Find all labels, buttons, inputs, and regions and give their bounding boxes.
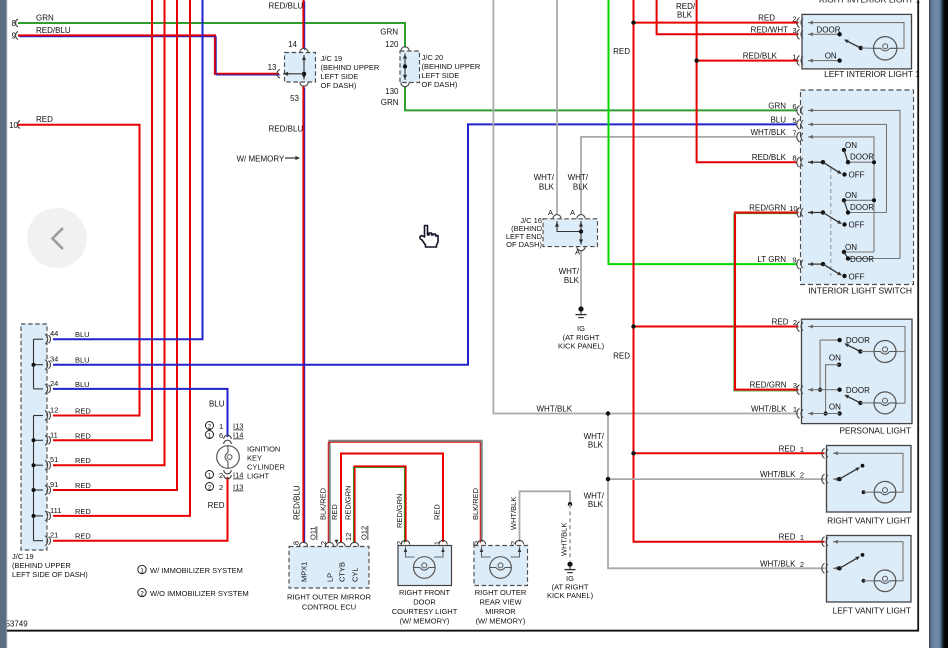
svg-text:BLU: BLU [770,115,786,124]
wire WHT/BLK vertical (top - personal light pin 1) [493,0,798,414]
svg-text:J/C 19: J/C 19 [321,54,343,63]
diagram right border [917,0,919,632]
left interior internal wiring [808,21,904,63]
svg-text:OFF: OFF [849,171,865,180]
svg-text:RED/BLU: RED/BLU [36,26,71,35]
svg-text:WHT/BLK: WHT/BLK [537,405,573,414]
mirror lamp [490,557,512,579]
label RED/GRN rotated at ECU [344,485,353,520]
pin 9 label [12,26,71,41]
svg-text:13: 13 [268,63,277,72]
svg-text:BLK: BLK [573,183,589,192]
left vanity switch [833,553,864,571]
personal pin1 line [808,412,840,416]
switch unit 3 DOOR OFF labels [849,255,875,282]
J/C16 labels WHT/BLK left pin [534,173,555,192]
svg-text:2: 2 [140,590,144,597]
svg-text:GRN: GRN [381,98,399,107]
label WHT/BLK mid horizontal [537,405,573,414]
label RED/ BLK two lines [676,2,696,20]
svg-text:RIGHT OUTER: RIGHT OUTER [475,588,527,597]
svg-text:BLU: BLU [75,380,90,389]
connector J/C19 left text [12,552,88,579]
svg-text:RED: RED [75,481,91,490]
J/C20 text label [422,53,481,89]
svg-text:1: 1 [433,541,442,545]
mirror pin 2 arc [509,540,524,545]
wire RED branch to left interior pin 2 [634,22,799,24]
personal lamp B [874,392,896,414]
switch unit 1 DOOR OFF labels [849,153,875,180]
note 1 W/ IMMOBILIZER SYSTEM [138,565,243,575]
svg-text:WHT/BLK: WHT/BLK [509,497,518,530]
svg-text:A: A [570,208,575,217]
svg-text:RED: RED [75,507,91,516]
switch pin 8 RED/BLK [752,153,803,167]
wire RED/BLK branch to pin 1 [697,60,799,62]
junction connector J/C16 box [543,219,598,247]
personal switch blade A [844,343,874,353]
switch mechanical link dashed [830,168,832,276]
personal pin3 line [808,386,870,395]
svg-text:1: 1 [792,52,796,61]
switch pin 10 RED/GRN [749,204,803,218]
svg-text:10: 10 [789,204,797,213]
svg-text:14: 14 [288,40,297,49]
control ECU text label [287,593,372,612]
svg-text:7: 7 [792,128,796,137]
ECU pin name LP [326,573,335,582]
svg-text:2: 2 [800,471,804,480]
svg-text:2: 2 [800,560,804,569]
svg-text:OF DASH): OF DASH) [506,240,542,249]
mirror pin 5 arc [471,540,486,545]
svg-text:5: 5 [471,541,480,545]
J/C19 pin 13 arc and arrow [268,63,304,78]
svg-text:WHT/BLK: WHT/BLK [751,405,787,414]
svg-text:RED/GRN: RED/GRN [749,204,786,213]
label RED near top [613,47,630,56]
wire WHT/BLK (x608 vertical to vanity lights) [608,414,825,569]
label WHT/ BLK below J/C16 [559,267,580,285]
J/C16 text label [506,216,543,249]
label RED/BLU rotated at ECU [293,485,302,520]
label BLK/RED rotated [319,487,328,520]
svg-text:GRN: GRN [768,101,786,110]
switch pin 6 GRN [768,101,803,115]
svg-text:KEY: KEY [247,454,262,463]
svg-text:RED: RED [613,47,630,56]
J/C20 top arc [401,47,409,51]
personal ON rail [824,365,840,416]
junction dot RED top [631,20,635,24]
svg-text:OF DASH): OF DASH) [321,81,357,90]
svg-text:ON: ON [845,191,857,200]
left interior light box [802,14,912,69]
svg-text:CYL: CYL [351,567,360,582]
svg-text:2: 2 [395,541,404,545]
svg-text:OFF: OFF [849,273,865,282]
wire RED branch to right vanity pin 1 [634,452,825,454]
label BLK/RED rotated at mirror [471,487,480,520]
svg-text:RIGHT VANITY LIGHT: RIGHT VANITY LIGHT [827,516,911,526]
ECU pin O12 label [360,526,369,540]
svg-text:A: A [548,208,553,217]
svg-text:(BEHIND UPPER: (BEHIND UPPER [321,63,380,72]
connector J/C19 left box [21,324,47,550]
svg-text:KICK PANEL): KICK PANEL) [558,342,605,351]
svg-text:J/C 19: J/C 19 [12,552,34,561]
right vanity switch [833,464,864,481]
personal internal feed rail [808,325,905,404]
wire RED vertical bus 3 (top - pin 51) [53,0,165,465]
svg-text:RED/BLU: RED/BLU [293,485,302,520]
svg-text:130: 130 [385,87,399,96]
svg-text:COURTESY LIGHT: COURTESY LIGHT [392,607,458,616]
svg-text:12: 12 [50,406,58,415]
svg-text:RED: RED [36,115,53,124]
wire RED vertical bus 4 (top - pin 91) [53,0,177,490]
wire WHT/BLK (J/C16 bottom pin A - IG) [580,251,582,307]
svg-text:BLU: BLU [209,400,225,409]
right vanity lamp [862,481,896,503]
J/C16 bottom arc [575,247,585,257]
svg-text:11: 11 [50,430,58,439]
svg-text:ON: ON [845,243,857,252]
svg-text:RED: RED [75,532,91,541]
wire RED (ECU CTYB - courtesy light pin 1) [341,454,443,543]
svg-text:1: 1 [140,567,144,574]
wire RED/BLU vertical through J/C19 down to mirror ECU MPX1 [304,0,305,543]
svg-text:RED/BLU: RED/BLU [269,2,304,11]
svg-text:24: 24 [50,379,58,388]
svg-text:3: 3 [792,26,796,35]
switch unit 2 ON [808,191,857,227]
label WHT/ BLK right vanity upper [584,432,605,450]
J/C19 internal vertical with arrows [302,55,306,80]
IG symbol mid page [576,306,587,317]
connector pin 34 arc [45,355,90,370]
wire RED vertical bus 1 (pin 10 - pin 12) [18,125,140,416]
left vanity pin 1 [779,533,828,547]
svg-text:(W/ MEMORY): (W/ MEMORY) [476,617,526,626]
ECU pin LP arc [325,542,333,546]
label W/ MEMORY with arrow [237,155,301,164]
ECU pin O11 label [309,526,318,540]
svg-text:RED: RED [75,407,91,416]
wire RED (ignition key cylinder light - pin 21) [53,477,228,541]
label RED/BLU mid [269,125,304,134]
J/C16 labels WHT/BLK right pin [568,173,589,192]
control ECU box [289,547,369,589]
svg-text:IGNITION: IGNITION [247,445,280,454]
svg-text:DOOR: DOOR [817,25,841,34]
right interior light 1 label cut at top [819,0,920,4]
left interior pin 2 [758,14,803,28]
svg-text:12: 12 [344,533,353,541]
svg-text:9: 9 [792,256,796,265]
IG text mid page [558,324,605,351]
junction dot WHT/BLK x608 [606,411,610,415]
svg-text:DOOR: DOOR [846,336,870,345]
ignition key cylinder lamp [217,446,240,469]
svg-text:LP: LP [326,573,335,582]
left interior ON contact [825,52,842,63]
wire RED/BLU: pin 9 to J/C19 pin 13 [18,36,280,76]
ignition lamp top arcs [224,435,232,444]
courtesy light lamp [414,557,436,579]
ECU pin CTYB arc [337,542,345,546]
svg-text:ON: ON [829,403,841,412]
svg-text:OFF: OFF [849,221,865,230]
svg-text:RED/GRN: RED/GRN [750,381,787,390]
svg-text:ON: ON [829,353,841,362]
svg-text:RED/BLK: RED/BLK [743,52,778,61]
mirror internal wiring [480,547,522,558]
right vanity box [827,446,912,513]
left interior switch blade [844,40,874,51]
svg-text:44: 44 [50,329,58,338]
svg-text:WHT/BLK: WHT/BLK [560,523,569,556]
svg-text:WHT/BLK: WHT/BLK [750,128,786,137]
svg-text:WHT/: WHT/ [534,173,555,182]
svg-text:DOOR: DOOR [846,386,870,395]
personal pin 1 [751,405,803,419]
svg-text:(BEHIND UPPER: (BEHIND UPPER [422,62,481,71]
switch unit 1 ON [808,141,857,177]
J/C19 bottom pin 53 arc [290,82,308,103]
svg-text:LIGHT: LIGHT [247,472,270,481]
wire WHT/BLK (interior switch pin 7 - J/C16 right pin A) [581,137,797,215]
wire BLU (top - pin 44) [53,0,203,339]
svg-text:8: 8 [292,541,301,545]
wire RED main bus right (top - left vanity pin 1) [634,0,825,542]
wire BLU (pin 34 - interior light switch pin 5) [53,124,797,364]
left interior light text label [824,69,920,79]
right vanity text label [827,516,911,526]
mirror box [474,546,528,586]
svg-text:KICK PANEL): KICK PANEL) [547,591,594,600]
wire RED vertical bus 2 (top - pin 11) [53,0,152,440]
junction connector J/C20 box [400,51,420,83]
svg-text:(BEHIND UPPER: (BEHIND UPPER [12,561,71,570]
note 2 W/O IMMOBILIZER SYSTEM [138,588,249,598]
svg-text:BLK: BLK [564,276,580,285]
svg-text:2: 2 [509,541,518,545]
right vanity pin 2 [760,470,828,484]
J/C16 pin A labels top [548,208,575,217]
svg-text:120: 120 [385,40,399,49]
IG text bottom [547,574,594,600]
personal DOOR A contact [818,336,870,392]
connector pin 24 arc [45,379,90,394]
label WHT/ BLK left vanity [584,492,605,510]
wire WHT/BLK (mirror pin 2 - IG) [520,491,571,542]
personal pin 2 [772,318,803,332]
switch unit 3 ON [808,243,857,278]
left vanity lamp [862,570,896,592]
wire WHT/BLK vertical (top - J/C16 left pin A) [556,0,558,215]
svg-text:PERSONAL LIGHT: PERSONAL LIGHT [839,426,911,436]
courtesy light pin 2 arc [395,540,410,545]
connector pin 12 arc [45,406,91,421]
svg-text:LEFT SIDE: LEFT SIDE [321,72,359,81]
svg-text:51: 51 [50,455,58,464]
left interior lamp [874,37,897,60]
ignition lamp connector labels top [206,422,244,441]
label RED mid [613,352,630,361]
ECU pin 8 label [292,541,301,545]
svg-text:W/O IMMOBILIZER SYSTEM: W/O IMMOBILIZER SYSTEM [150,589,249,598]
svg-text:J/C 20: J/C 20 [422,53,444,62]
interior light switch text label [808,286,912,296]
svg-text:5: 5 [792,116,796,125]
wire WHT/BLK dashed to IG [569,504,571,561]
svg-text:DOOR: DOOR [850,255,874,264]
svg-text:RED: RED [779,533,796,542]
connector pin 21 arc [45,531,91,546]
svg-text:BLU: BLU [75,356,90,365]
J/C20 labels GRN 120 [380,28,399,50]
connector pin 51 arc [45,455,91,470]
diagram bottom border [7,630,919,632]
svg-text:RED/BLK: RED/BLK [752,153,787,162]
svg-text:1: 1 [800,445,804,454]
ECU pin name MPX1 [300,562,309,582]
connector bracket group 2 [32,416,44,541]
J/C19 top pin 14 arc [288,40,308,53]
svg-text:BLK/RED: BLK/RED [319,487,328,520]
svg-text:BLK: BLK [588,500,604,509]
svg-text:IG: IG [577,324,585,333]
svg-text:MIRROR: MIRROR [485,607,516,616]
svg-text:RED/GRN: RED/GRN [395,493,404,528]
mouse hand cursor [420,226,438,248]
wire RED branch to personal light pin 2 [634,326,799,328]
svg-text:WHT/: WHT/ [559,267,580,276]
right vanity pin 1 [779,444,828,458]
wire BLU (pin 24 - ignition key cylinder light) [53,389,228,437]
svg-text:CONTROL ECU: CONTROL ECU [302,603,356,612]
svg-text:2: 2 [219,483,223,492]
svg-text:RED: RED [433,504,442,520]
svg-text:CTYB: CTYB [338,562,347,582]
svg-text:CYLINDER: CYLINDER [247,463,286,472]
svg-text:RED/WHT: RED/WHT [751,25,788,34]
wire LT GRN (top - interior switch pin 9) [609,0,798,264]
svg-text:2: 2 [792,14,796,23]
svg-text:W/ MEMORY: W/ MEMORY [237,155,286,164]
svg-text:RED: RED [613,352,630,361]
ignition lamp connector labels bottom [206,471,244,493]
left interior pin 1 [743,52,803,66]
svg-text:BLK/RED: BLK/RED [471,487,480,520]
personal ON B contact [829,403,842,416]
svg-text:LT GRN: LT GRN [757,255,786,264]
courtesy light box [398,546,452,586]
svg-text:DOOR: DOOR [850,203,874,212]
svg-text:I13: I13 [233,422,243,431]
personal lamp A [874,341,896,363]
J/C20 internal dot [403,64,407,68]
J/C20 internal vertical with arrows [403,54,407,81]
left interior DOOR contact [817,25,842,36]
left interior pin 3 [751,25,803,39]
svg-text:LEFT VANITY LIGHT: LEFT VANITY LIGHT [833,606,911,616]
label BLU above ignition lamp [209,400,225,409]
J/C16 top arcs [553,215,585,219]
mirror text label [475,588,527,626]
connector pin 11 arc [45,430,91,445]
pin 9 connector stub [16,32,18,40]
svg-text:DOOR: DOOR [413,598,436,607]
junction dot RED/BLK [694,58,698,62]
label RED/GRN rotated at courtesy [395,493,404,528]
label RED below ignition lamp [208,501,225,510]
ECU pin 12 label [344,533,353,541]
svg-text:8: 8 [792,154,796,163]
left window edge strip [0,0,7,648]
svg-text:LEFT SIDE OF DASH): LEFT SIDE OF DASH) [12,570,88,579]
svg-text:RED: RED [772,318,789,327]
right scrollbar gradient bar [929,0,948,648]
svg-text:RED/GRN: RED/GRN [344,485,353,520]
junction dot WHT/BLK vanity [606,477,610,481]
junction dot RED vanity [631,451,635,455]
connector pin 44 arc [45,329,90,344]
svg-text:ON: ON [825,52,837,61]
left vanity feed rail [833,540,903,581]
left vanity text label [833,606,911,616]
switch internal rails [808,108,900,258]
svg-text:WHT/BLK: WHT/BLK [760,559,796,568]
personal ON A contact [829,353,841,367]
connector bracket group 1 [32,339,44,389]
svg-text:OF DASH): OF DASH) [422,80,458,89]
junction dot WHT/BLK IG [568,502,572,506]
label WHT/BLK rotated at IG drop [560,523,569,556]
label RED/BLU top [269,2,304,11]
interior light switch box [801,90,914,285]
ECU pin LP arrow [335,540,339,544]
pin 8 connector stub [16,19,18,27]
wire RED/GRN (ECU CYL - courtesy light pin 2) [353,467,405,544]
svg-text:(W/ MEMORY): (W/ MEMORY) [400,617,450,626]
J/C19 internal junction dot [302,72,306,76]
svg-text:WHT/BLK: WHT/BLK [760,470,796,479]
courtesy light pin 1 arc [433,540,448,545]
svg-text:RED: RED [779,444,796,453]
personal pin 3 [750,381,803,395]
svg-text:RIGHT FRONT: RIGHT FRONT [399,588,451,597]
svg-text:I14: I14 [233,431,243,440]
svg-text:GRN: GRN [36,14,54,23]
right vanity feed rail [833,451,903,492]
svg-text:RED: RED [75,456,91,465]
svg-text:BLK: BLK [677,11,693,20]
svg-text:I13: I13 [233,483,243,492]
IG symbol bottom [565,562,576,573]
label RED rotated at courtesy [433,504,442,520]
svg-text:1: 1 [219,422,223,431]
svg-text:REAR VIEW: REAR VIEW [479,598,522,607]
svg-text:ON: ON [845,141,857,150]
label RED rotated at ECU [330,504,339,520]
svg-text:6: 6 [792,102,796,111]
courtesy light text label [392,588,458,626]
svg-text:BLK: BLK [588,441,604,450]
svg-text:GRN: GRN [380,28,398,37]
